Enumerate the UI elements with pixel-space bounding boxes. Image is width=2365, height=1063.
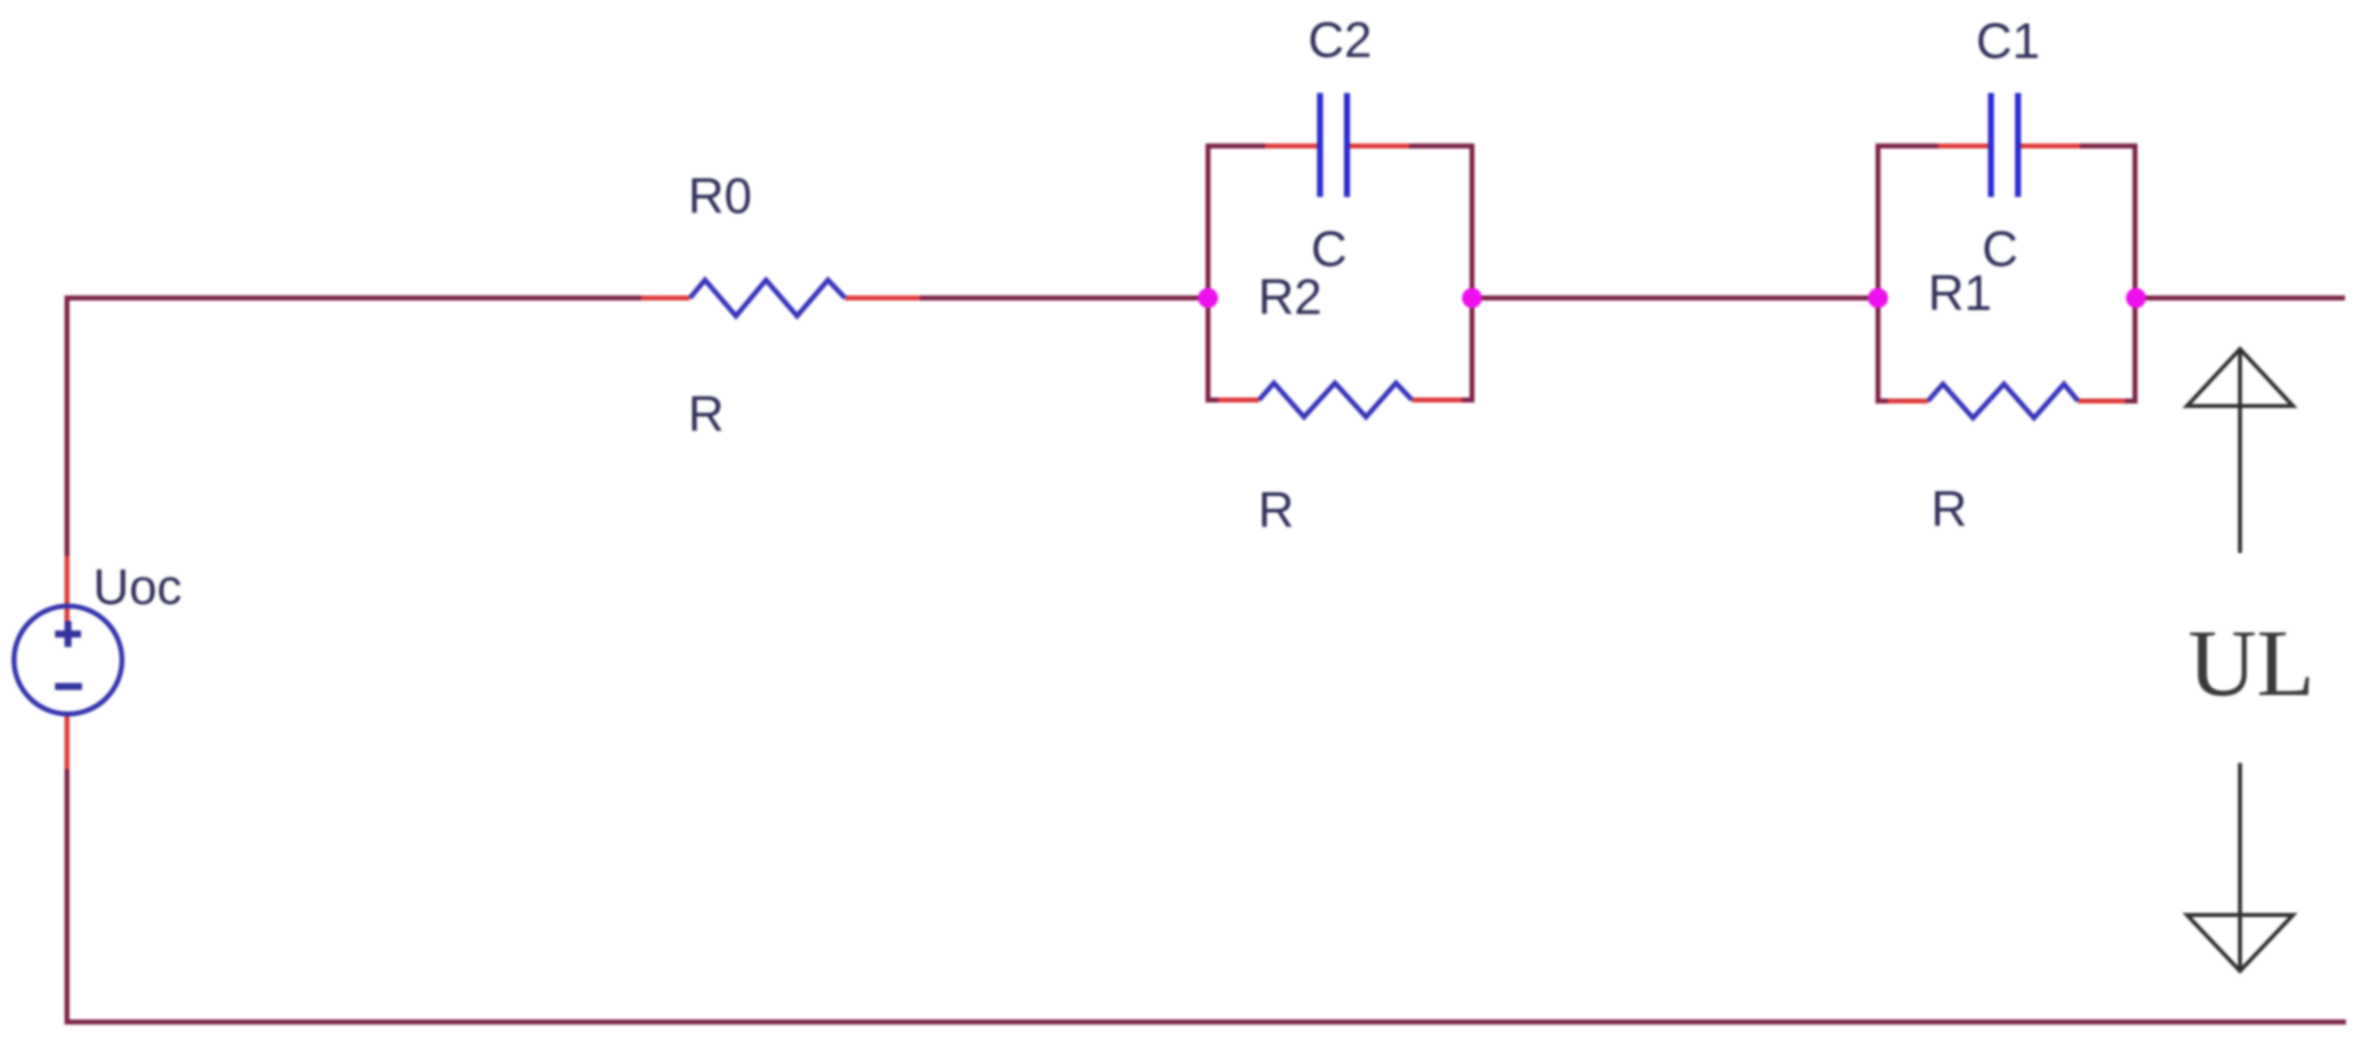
svg-text:UL: UL: [2188, 610, 2315, 716]
svg-text:R: R: [688, 386, 724, 442]
svg-text:R2: R2: [1258, 269, 1322, 325]
svg-text:C1: C1: [1976, 13, 2040, 69]
svg-text:C2: C2: [1308, 12, 1372, 68]
svg-text:Uoc: Uoc: [93, 559, 182, 615]
svg-text:R1: R1: [1928, 265, 1992, 321]
svg-text:R: R: [1931, 481, 1967, 537]
svg-text:R0: R0: [688, 168, 752, 224]
svg-text:R: R: [1258, 482, 1294, 538]
